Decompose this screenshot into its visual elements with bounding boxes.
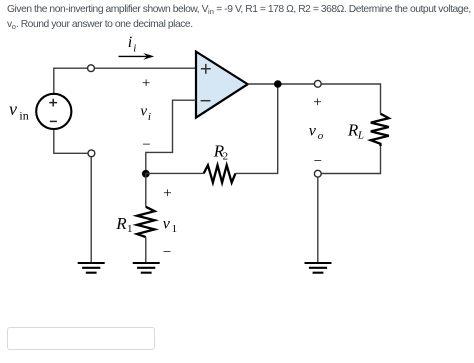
svg-text:1: 1: [127, 223, 133, 235]
wire top from source to op-amp + input: [54, 68, 196, 94]
terminal (open node) bottom input: [88, 150, 95, 157]
label R1: [115, 214, 132, 235]
svg-text:+: +: [313, 95, 321, 111]
answer input box: [7, 327, 155, 350]
label v_o: [309, 123, 324, 142]
terminal (open node) output top: [314, 80, 321, 87]
wire output terminal to ground: [317, 177, 319, 262]
svg-text:2: 2: [223, 151, 229, 163]
label - of v_i: [142, 137, 150, 153]
svg-text:v: v: [140, 103, 147, 119]
resistor R2: [204, 165, 236, 182]
svg-text:−: −: [163, 245, 171, 261]
label + of v_i: [142, 75, 150, 91]
ground (R1): [133, 263, 160, 273]
svg-text:i: i: [128, 34, 132, 51]
wire op-amp inverting input to feedback node: [146, 100, 196, 170]
ground (output): [305, 263, 332, 273]
current arrow: [119, 53, 155, 60]
svg-text:−: −: [314, 154, 322, 170]
svg-text:L: L: [357, 130, 364, 142]
resistor RL: [371, 114, 389, 146]
svg-text:in: in: [19, 109, 28, 123]
wire RL bottom to output terminal: [321, 146, 380, 174]
label v_in: [9, 99, 29, 123]
resistor R1: [137, 207, 155, 237]
node B output junction: [274, 80, 282, 88]
svg-text:i: i: [133, 43, 136, 55]
svg-text:v: v: [163, 215, 171, 232]
node A feedback junction: [142, 170, 150, 178]
svg-text:−: −: [142, 137, 150, 153]
voltage source Vin: [36, 94, 71, 129]
svg-text:v: v: [9, 99, 17, 119]
svg-text:R: R: [115, 214, 127, 233]
svg-text:i: i: [148, 111, 151, 123]
ground (input): [78, 263, 105, 273]
wire input terminal down to ground: [90, 157, 92, 263]
label RL: [347, 121, 364, 142]
svg-text:1: 1: [172, 223, 178, 235]
label v1: [163, 215, 177, 235]
wire feedback node to R2: [146, 172, 204, 174]
label v_i: [140, 103, 151, 123]
svg-text:+: +: [142, 75, 150, 91]
label i_i current: [128, 34, 136, 55]
label - of v_o: [314, 154, 322, 170]
label + of v_o: [313, 95, 321, 111]
wire op-amp output to RL top: [248, 84, 381, 114]
terminal (open node) top input: [88, 65, 95, 72]
op-amp U1: [196, 52, 248, 118]
wire source bottom to input terminal: [54, 129, 92, 153]
wire R2 to output node: [235, 84, 277, 173]
wire R1 bottom to ground: [145, 237, 147, 262]
label - of v1: [163, 245, 171, 261]
svg-text:+: +: [163, 186, 171, 202]
terminal (open node) output bottom: [314, 170, 321, 177]
wire R1 top: [145, 174, 147, 207]
label R2: [213, 142, 228, 163]
svg-text:o: o: [318, 130, 324, 142]
label + of v1: [163, 186, 171, 202]
svg-text:v: v: [309, 123, 317, 140]
